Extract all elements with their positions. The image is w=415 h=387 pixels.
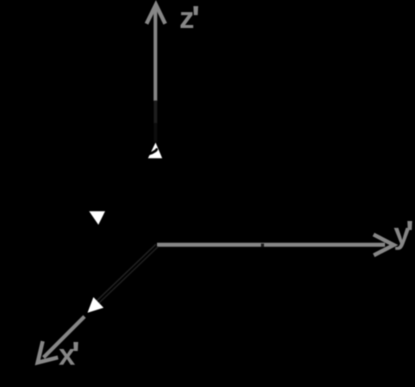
node y' tick	[261, 244, 264, 247]
node marker notch	[149, 149, 156, 153]
wire z' axis arrowhead	[147, 5, 166, 24]
node marker triangle down-left (x)	[88, 297, 104, 313]
node marker triangle down	[89, 211, 105, 225]
node x' prime mark	[73, 342, 78, 351]
node z' label	[181, 12, 194, 28]
wire y' axis shaft	[157, 243, 385, 247]
wire y' axis arrowhead	[374, 235, 394, 256]
wire x' axis arrowhead	[38, 341, 58, 362]
node y' label	[394, 228, 410, 250]
wire faint x vector shaft	[95, 244, 156, 302]
node z' prime mark	[193, 6, 198, 15]
node y' prime mark	[407, 221, 412, 230]
wire x' axis shaft	[44, 317, 85, 358]
wire faint z vector shaft	[154, 101, 158, 124]
wire z' axis shaft	[154, 8, 158, 101]
node marker triangle up (z)	[148, 143, 162, 159]
node x' label	[59, 349, 75, 365]
